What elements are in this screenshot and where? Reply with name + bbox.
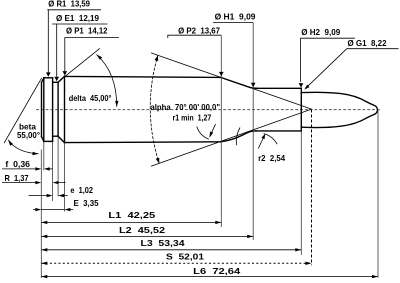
L6 tip extension [377, 110, 379, 278]
alpha cone lower line [151, 109, 312, 166]
neck bottom [256, 130, 301, 132]
delta ramp line [65, 48, 99, 76]
L3 arrow left [41, 248, 47, 251]
groove ramp bottom [58, 136, 64, 142]
S apex dashed extension [311, 110, 313, 266]
svg-text:Ø H1 9,09: Ø H1 9,09 [215, 12, 256, 22]
body bottom edge [65, 141, 221, 144]
shoulder top [221, 77, 257, 88]
r2 fillet arc [264, 134, 278, 145]
e arrow left [47, 194, 53, 197]
R arrow left [35, 181, 41, 184]
rim bottom edge [44, 140, 53, 142]
rim chamfer edge [43, 78, 45, 142]
bullet ogive [301, 92, 377, 127]
cartridge case profile [42, 76, 378, 142]
R arrow right [53, 181, 59, 184]
S dimension line dashed [41, 262, 311, 264]
H1 leader [213, 22, 253, 24]
extractor groove top [53, 81, 59, 83]
L1 dimension line [41, 221, 221, 223]
f arrow left [35, 167, 41, 170]
groove edge [57, 82, 59, 136]
extractor groove bottom [53, 135, 59, 137]
H1 arrow [251, 83, 256, 88]
rim chamfer extension [43, 142, 45, 170]
svg-text:L6 72,64: L6 72,64 [193, 266, 240, 276]
svg-text:r2 2,54: r2 2,54 [258, 153, 285, 163]
beta angle arc [8, 140, 38, 154]
body start edge [64, 76, 66, 142]
label leaders [47, 10, 398, 88]
svg-text:Ø E1 12,19: Ø E1 12,19 [56, 13, 99, 23]
P2 arrow [219, 72, 224, 77]
e arrow right [58, 194, 64, 197]
svg-text:E 3,35: E 3,35 [74, 198, 99, 208]
L2 neck extension [252, 23, 254, 240]
delta angle arc [97, 55, 117, 107]
svg-text:55,00°: 55,00° [17, 130, 40, 140]
E arrow left [35, 208, 41, 211]
case mouth [300, 88, 302, 131]
r2 arrow [261, 134, 265, 140]
rim chamfer bottom [42, 137, 44, 142]
rim rear face [52, 78, 54, 142]
r1 arrow [209, 132, 213, 138]
svg-text:r1 min 1,27: r1 min 1,27 [173, 112, 212, 122]
E1 leader [52, 24, 107, 77]
beta arc arrow right [32, 152, 38, 155]
S arrow left [41, 262, 47, 265]
svg-text:Ø R1 13,59: Ø R1 13,59 [48, 0, 90, 9]
svg-text:alpha 70° 00' 00,0": alpha 70° 00' 00,0" [151, 102, 221, 112]
L6 arrow right [372, 275, 378, 278]
svg-text:f 0,36: f 0,36 [5, 159, 30, 169]
rim top edge [44, 77, 53, 79]
alpha angle arc [150, 55, 159, 163]
delta arc arrow top [97, 55, 103, 60]
L2 arrow left [41, 235, 47, 238]
angle arcs [8, 55, 277, 164]
E1 arrow [54, 77, 59, 82]
f arrow right [44, 167, 50, 170]
L2 arrow right [247, 235, 253, 238]
rim chamfer top [42, 78, 44, 83]
E arrow right [64, 208, 70, 211]
svg-text:delta 45,00°: delta 45,00° [69, 93, 112, 103]
rim face [41, 83, 43, 137]
groove ramp top [58, 76, 64, 82]
svg-text:L1 42,25: L1 42,25 [108, 210, 155, 220]
dimension lines lower-left [2, 169, 378, 277]
neck top [257, 87, 301, 89]
svg-text:Ø P1 14,12: Ø P1 14,12 [66, 26, 108, 36]
alpha arc arrow top [155, 55, 159, 61]
P1 leader [65, 38, 119, 72]
alpha cone upper line [151, 53, 312, 109]
beta chamfer line [4, 78, 42, 143]
datum extension [40, 150, 42, 279]
f dimension line [2, 168, 53, 170]
arrowheads [8, 55, 378, 279]
P1 arrow [63, 71, 68, 76]
L2 dimension line [41, 235, 253, 237]
L1 shoulder extension [220, 35, 222, 227]
groove right extension [57, 136, 59, 196]
S arrow right [306, 262, 312, 265]
centerline axis [36, 109, 381, 111]
L1 arrow left [41, 221, 47, 224]
svg-text:L2 45,52: L2 45,52 [119, 225, 165, 235]
thin construction lines [4, 48, 312, 166]
svg-text:Ø P2 13,67: Ø P2 13,67 [178, 25, 220, 35]
E dimension line [33, 209, 73, 211]
body start extension [64, 143, 66, 212]
L6 dimension line [41, 276, 378, 278]
shoulder bottom [221, 131, 256, 142]
R1 leader [47, 10, 101, 73]
e dimension line [29, 195, 68, 197]
delta arc arrow bottom [115, 101, 118, 107]
r1 leader line [210, 124, 215, 136]
alpha arc arrow bottom [156, 158, 160, 164]
P2 leader [168, 35, 222, 38]
L1 arrow right [215, 221, 221, 224]
R dimension line [2, 182, 66, 184]
beta arc arrow left [8, 140, 13, 146]
G1 leader [306, 49, 399, 88]
L6 arrow left [41, 275, 47, 278]
svg-text:e 1,02: e 1,02 [70, 185, 93, 195]
L3 arrow right [295, 248, 301, 251]
r1 fillet arc left [197, 127, 209, 140]
r1 fillet arc right [236, 128, 240, 146]
body top edge [65, 76, 221, 77]
L3 dimension line [41, 249, 301, 251]
G1 arrow [304, 85, 309, 90]
r2 leader line [258, 137, 264, 149]
H2 arrow [299, 83, 304, 88]
L3 mouth extension [300, 131, 302, 255]
H2 leader [301, 38, 355, 82]
R1 arrow [46, 72, 51, 77]
svg-text:Ø G1 8,22: Ø G1 8,22 [348, 38, 387, 48]
extension lines [41, 23, 378, 278]
svg-text:Ø H2 9,09: Ø H2 9,09 [301, 27, 340, 37]
svg-text:S 52,01: S 52,01 [166, 252, 204, 262]
groove left extension [52, 142, 54, 201]
svg-text:R 1,37: R 1,37 [5, 173, 29, 183]
svg-text:L3 53,34: L3 53,34 [141, 238, 185, 248]
